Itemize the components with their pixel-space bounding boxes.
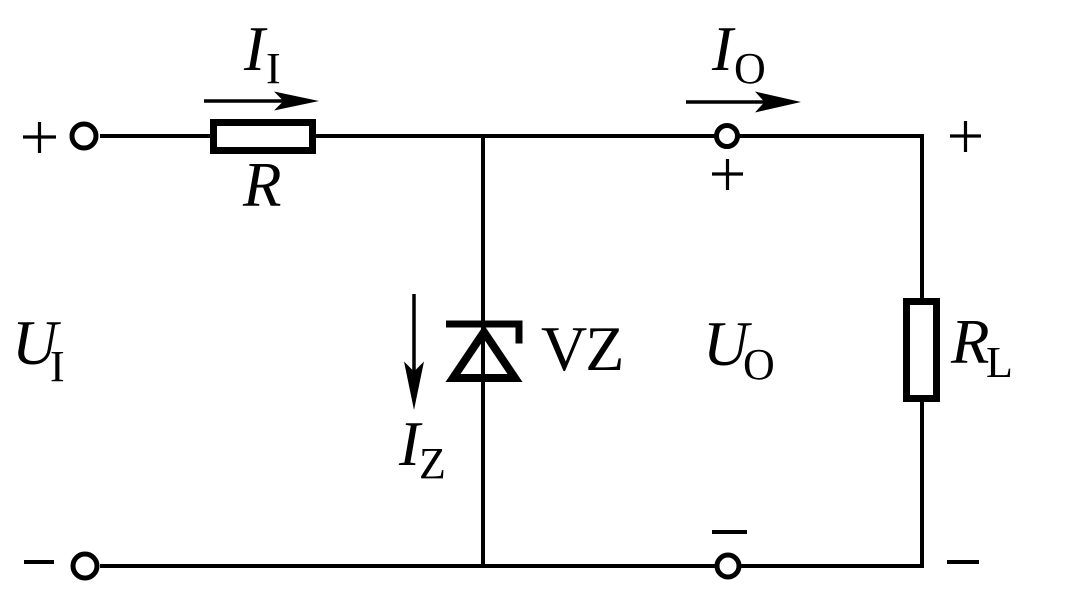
current arrow I_Z [404, 294, 424, 410]
svg-text:R: R [242, 150, 281, 220]
wire: right side vertical through RL [920, 134, 924, 568]
label + (input positive) [23, 122, 56, 153]
label − (load negative) [947, 560, 979, 564]
label I_I [243, 14, 281, 93]
current arrow I_O [686, 92, 801, 113]
zener diode VZ: cathode right hook [516, 324, 523, 344]
input terminal circle (bottom left) [73, 554, 97, 578]
label I_O [711, 14, 766, 93]
label I_Z [398, 409, 446, 488]
wire: zener branch vertical (node to bottom rail) [481, 136, 485, 566]
svg-text:I: I [243, 14, 268, 84]
svg-text:Z: Z [419, 439, 446, 488]
input terminal circle (top left) [72, 124, 96, 148]
svg-text:I: I [266, 44, 281, 93]
zener diode VZ: cathode bar [446, 321, 523, 328]
svg-text:I: I [711, 14, 736, 84]
svg-text:O: O [743, 340, 775, 389]
svg-text:VZ: VZ [541, 313, 622, 384]
zener diode VZ: anode triangle [453, 332, 515, 378]
output terminal circle (top) [717, 126, 738, 147]
label U_O [703, 309, 775, 389]
svg-text:I: I [50, 342, 65, 391]
label + (output positive) [712, 159, 743, 190]
label U_I [12, 308, 65, 391]
wire: bottom rail from input terminal to bottom-right corner [100, 564, 922, 568]
resistor R_L [907, 302, 937, 399]
svg-text:O: O [734, 44, 766, 93]
svg-text:R: R [950, 307, 989, 377]
label R_L [950, 307, 1013, 387]
label + (load positive) [950, 121, 981, 152]
svg-text:L: L [986, 338, 1013, 387]
output terminal circle (bottom) [717, 555, 739, 577]
wire: top rail from input terminal to top-right corner [100, 134, 922, 138]
resistor R [214, 123, 313, 151]
label − (input negative) [24, 560, 54, 564]
current arrow I_I [204, 92, 319, 111]
label − (output negative) [712, 530, 747, 534]
